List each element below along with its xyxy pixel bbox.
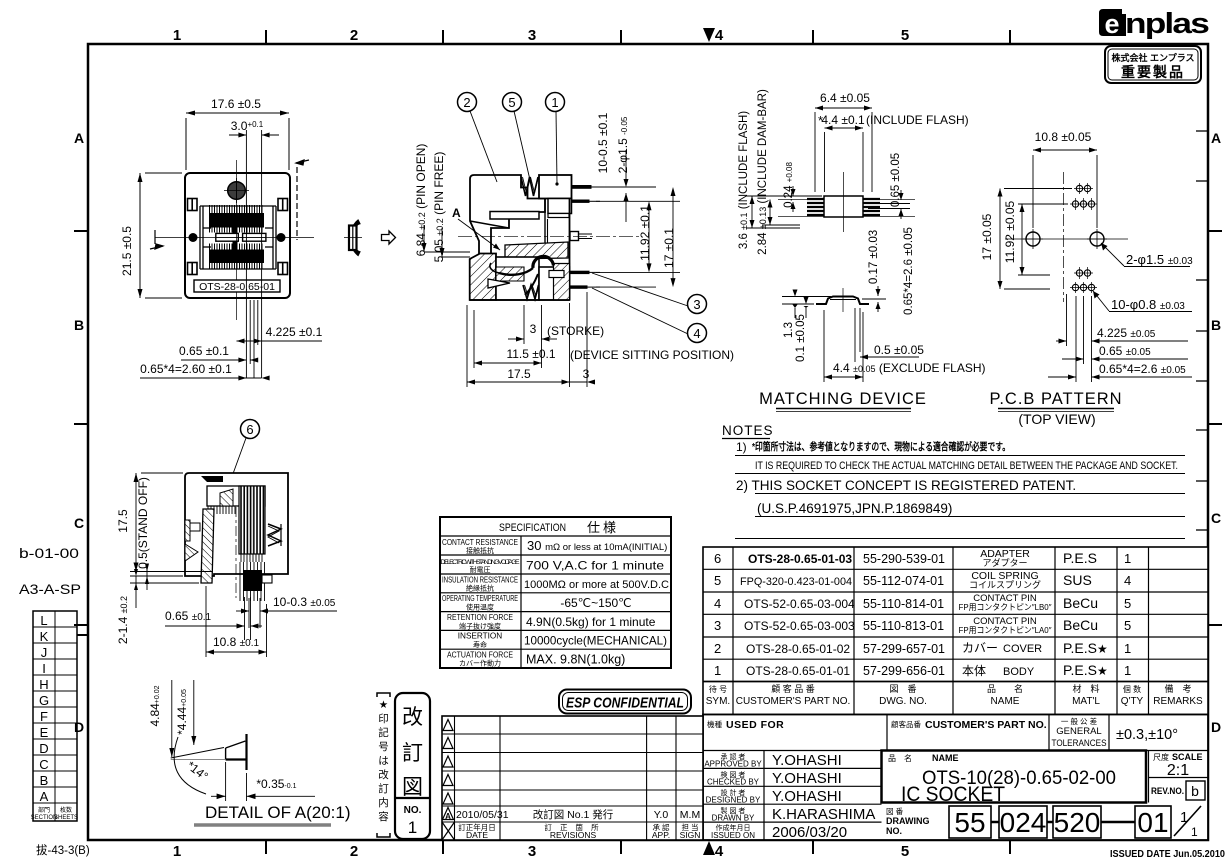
svg-text:700 V,A.C for 1 minute: 700 V,A.C for 1 minute bbox=[526, 559, 664, 573]
svg-text:1: 1 bbox=[1180, 809, 1188, 826]
svg-text:NAME: NAME bbox=[991, 696, 1020, 707]
matching device title bbox=[759, 390, 927, 412]
svg-text:1: 1 bbox=[173, 843, 181, 860]
svg-text:FPQ-320-0.423-01-004: FPQ-320-0.423-01-004 bbox=[740, 576, 852, 588]
svg-text:NAME: NAME bbox=[932, 753, 959, 763]
svg-text:備 考: 備 考 bbox=[1164, 683, 1191, 694]
svg-text:FP用コンタクトピン″LA0″: FP用コンタクトピン″LA0″ bbox=[959, 625, 1052, 635]
section arrow top right bbox=[296, 160, 309, 240]
svg-text:SYM.: SYM. bbox=[706, 696, 730, 707]
svg-text:1): 1) bbox=[736, 440, 747, 454]
svg-text:端子抜け強度: 端子抜け強度 bbox=[459, 622, 501, 631]
svg-text:2: 2 bbox=[463, 95, 470, 110]
svg-text:4: 4 bbox=[715, 843, 724, 860]
svg-text:5: 5 bbox=[901, 843, 909, 860]
svg-text:1000MΩ or more at 500V.D.C: 1000MΩ or more at 500V.D.C bbox=[524, 579, 669, 591]
svg-text:仕様: 仕様 bbox=[587, 520, 619, 535]
svg-text:b: b bbox=[1191, 783, 1199, 799]
svg-text:訂: 訂 bbox=[378, 782, 389, 795]
left standoff post hatched bbox=[201, 509, 214, 583]
svg-text:OTS-28-0.65-01: OTS-28-0.65-01 bbox=[199, 281, 275, 293]
centerline bbox=[235, 507, 237, 598]
svg-text:使用温度: 使用温度 bbox=[466, 603, 494, 612]
angle arc bbox=[174, 737, 206, 794]
svg-text:10.8 ±0.1: 10.8 ±0.1 bbox=[213, 635, 260, 649]
svg-text:APP.: APP. bbox=[652, 830, 670, 840]
svg-text:材 料: 材 料 bbox=[1072, 683, 1099, 694]
svg-text:17 ±0.1: 17 ±0.1 bbox=[662, 228, 676, 268]
svg-text:重要製品: 重要製品 bbox=[1121, 64, 1185, 80]
svg-text:3: 3 bbox=[530, 322, 537, 336]
svg-text:5.05 ±0.2 (PIN FREE): 5.05 ±0.2 (PIN FREE) bbox=[432, 152, 446, 263]
section arrow bottom left bbox=[150, 230, 163, 249]
svg-text:図: 図 bbox=[402, 776, 423, 799]
svg-text:枚数: 枚数 bbox=[60, 806, 72, 814]
view4 dims bbox=[980, 130, 1193, 382]
centerlines bbox=[155, 237, 314, 239]
svg-text:品 名: 品 名 bbox=[987, 683, 1023, 694]
svg-text:本体: 本体 bbox=[962, 664, 986, 678]
name bbox=[959, 548, 1052, 678]
svg-text:4: 4 bbox=[1124, 573, 1131, 588]
svg-text:REMARKS: REMARKS bbox=[1153, 696, 1203, 707]
balloon 2 bbox=[458, 93, 707, 343]
svg-text:DWG. NO.: DWG. NO. bbox=[879, 696, 927, 707]
svg-text:D: D bbox=[1211, 719, 1221, 735]
svg-text:1: 1 bbox=[173, 27, 181, 44]
svg-text:容: 容 bbox=[378, 810, 389, 823]
svg-text:55-112-074-01: 55-112-074-01 bbox=[863, 574, 944, 588]
centerline bbox=[458, 235, 640, 237]
svg-text:11.92 ±0.1: 11.92 ±0.1 bbox=[638, 205, 652, 261]
small left features bbox=[185, 520, 190, 541]
svg-text:SHEETS: SHEETS bbox=[54, 815, 78, 821]
svg-text:ISSUED ON: ISSUED ON bbox=[711, 831, 755, 840]
svg-text:5: 5 bbox=[1124, 596, 1131, 611]
contact pin curl bbox=[533, 256, 554, 268]
sym column bbox=[714, 551, 721, 678]
svg-text:DRAWN BY: DRAWN BY bbox=[712, 814, 755, 823]
svg-text:BeCu: BeCu bbox=[1063, 595, 1098, 611]
svg-text:A: A bbox=[452, 206, 461, 220]
svg-text:OTS-28-0.65-01-03: OTS-28-0.65-01-03 bbox=[748, 552, 852, 566]
svg-text:REV.NO.: REV.NO. bbox=[1151, 786, 1184, 796]
bottom spring zigzag bbox=[523, 285, 539, 299]
svg-text:1: 1 bbox=[1124, 551, 1131, 566]
svg-text:K.HARASHIMA: K.HARASHIMA bbox=[772, 806, 875, 823]
bottom right block bbox=[539, 267, 570, 300]
mount holes bbox=[1026, 232, 1040, 246]
svg-text:2006/03/20: 2006/03/20 bbox=[772, 824, 847, 841]
ESP CONFIDENTIAL stamp bbox=[559, 690, 691, 714]
svg-text:寿命: 寿命 bbox=[473, 640, 487, 649]
view5 dims bbox=[116, 473, 337, 657]
svg-text:10.8 ±0.05: 10.8 ±0.05 bbox=[1035, 130, 1092, 144]
svg-text:FP用コンタクトピン″LB0″: FP用コンタクトピン″LB0″ bbox=[959, 602, 1052, 612]
svg-text:A: A bbox=[40, 789, 49, 804]
svg-text:1: 1 bbox=[408, 818, 417, 837]
svg-text:改: 改 bbox=[378, 768, 389, 781]
sheet 1/1 bbox=[1174, 806, 1201, 836]
svg-text:株式会社 エンプラス: 株式会社 エンプラス bbox=[1111, 52, 1194, 63]
side spring zigzag bbox=[268, 524, 281, 546]
svg-text:3: 3 bbox=[583, 367, 590, 381]
svg-text:BODY: BODY bbox=[1003, 666, 1035, 678]
svg-text:DATE: DATE bbox=[466, 830, 488, 840]
svg-text:55-290-539-01: 55-290-539-01 bbox=[863, 552, 945, 566]
lower-left hatched body bbox=[470, 254, 496, 301]
svg-text:DETAIL OF A(20:1): DETAIL OF A(20:1) bbox=[205, 803, 351, 822]
chip side profile symbol bbox=[344, 221, 362, 256]
bottom edge bbox=[470, 299, 570, 301]
svg-text:CONTACT RESISTANCE: CONTACT RESISTANCE bbox=[442, 538, 518, 547]
comb under holder bbox=[208, 506, 235, 514]
svg-text:6.4 ±0.05: 6.4 ±0.05 bbox=[820, 91, 870, 105]
svg-text:3: 3 bbox=[714, 618, 721, 633]
top circle hatched bbox=[228, 182, 246, 200]
svg-text:は: は bbox=[378, 755, 389, 767]
svg-text:P.E.S★: P.E.S★ bbox=[1063, 662, 1108, 678]
svg-text:GENERAL: GENERAL bbox=[1056, 726, 1101, 737]
svg-text:TOLERANCES: TOLERANCES bbox=[1052, 738, 1107, 749]
lower extension lines bbox=[246, 130, 261, 378]
svg-text:図 番: 図 番 bbox=[889, 683, 916, 694]
svg-text:(STORKE): (STORKE) bbox=[547, 324, 604, 338]
svg-text:絶縁抵抗: 絶縁抵抗 bbox=[466, 584, 494, 593]
svg-text:3: 3 bbox=[693, 297, 700, 312]
svg-text:コイルスプリング: コイルスプリング bbox=[969, 579, 1041, 590]
svg-text:SPECIFICATION: SPECIFICATION bbox=[499, 522, 566, 534]
svg-text:DRAWING: DRAWING bbox=[886, 816, 930, 826]
svg-text:P.E.S: P.E.S bbox=[1063, 550, 1097, 566]
spring item5 top zigzag bbox=[521, 177, 538, 196]
svg-text:4.4 ±0.05 (EXCLUDE FLASH): 4.4 ±0.05 (EXCLUDE FLASH) bbox=[833, 361, 986, 375]
svg-text:B: B bbox=[1211, 317, 1221, 333]
balloon 4 bbox=[688, 324, 707, 343]
svg-text:Y.OHASHI: Y.OHASHI bbox=[772, 752, 842, 769]
svg-text:CHECKED BY: CHECKED BY bbox=[707, 778, 760, 787]
svg-text:訂: 訂 bbox=[402, 742, 423, 765]
pin tip shape bbox=[245, 734, 247, 770]
step under block bbox=[548, 199, 572, 214]
svg-text:e: e bbox=[1104, 9, 1119, 39]
top notch dark bbox=[201, 476, 223, 482]
svg-text:COVER: COVER bbox=[1003, 643, 1042, 655]
svg-text:(TOP VIEW): (TOP VIEW) bbox=[1018, 411, 1095, 427]
svg-text:OTS-52-0.65-03-003: OTS-52-0.65-03-003 bbox=[744, 619, 855, 633]
svg-text:H: H bbox=[39, 677, 48, 692]
svg-text:P.E.S★: P.E.S★ bbox=[1063, 640, 1108, 656]
svg-text:4: 4 bbox=[693, 326, 700, 341]
svg-text:1: 1 bbox=[1124, 663, 1131, 678]
svg-text:0.5(STAND OFF): 0.5(STAND OFF) bbox=[136, 477, 150, 569]
svg-text:OTS-28-0.65-01-01: OTS-28-0.65-01-01 bbox=[746, 664, 850, 678]
dense contact pin block bbox=[239, 486, 265, 554]
svg-text:MAX. 9.8N(1.0kg): MAX. 9.8N(1.0kg) bbox=[526, 653, 625, 667]
svg-text:17.5: 17.5 bbox=[507, 367, 531, 381]
svg-text:0.65 ±0.05: 0.65 ±0.05 bbox=[1099, 344, 1151, 358]
hatched wedge in holder bbox=[220, 489, 233, 506]
svg-text:NO.: NO. bbox=[886, 826, 902, 836]
svg-text:1: 1 bbox=[1191, 825, 1198, 839]
svg-text:CUSTOMER'S PART NO.: CUSTOMER'S PART NO. bbox=[925, 719, 1047, 731]
svg-text:カバー: カバー bbox=[962, 641, 998, 655]
svg-text:3: 3 bbox=[528, 27, 536, 44]
svg-text:01: 01 bbox=[1137, 807, 1168, 838]
svg-text:4: 4 bbox=[714, 596, 721, 611]
header row bbox=[442, 822, 455, 840]
svg-text:520: 520 bbox=[1054, 807, 1101, 838]
svg-text:4.225 ±0.05: 4.225 ±0.05 bbox=[1097, 326, 1156, 340]
svg-text:C: C bbox=[1211, 510, 1221, 526]
body outline bbox=[185, 473, 288, 576]
svg-text:改: 改 bbox=[402, 706, 423, 729]
balloon 3 bbox=[688, 295, 707, 314]
svg-text:ESP CONFIDENTIAL: ESP CONFIDENTIAL bbox=[566, 695, 684, 712]
centre nub bbox=[570, 232, 579, 241]
svg-text:0.65 ±0.1: 0.65 ±0.1 bbox=[179, 344, 229, 358]
svg-text:NO.: NO. bbox=[404, 805, 422, 816]
svg-text:OTS-52-0.65-03-004: OTS-52-0.65-03-004 bbox=[744, 597, 855, 611]
approval values bbox=[772, 752, 875, 841]
svg-text:1: 1 bbox=[551, 95, 558, 110]
svg-text:5: 5 bbox=[714, 573, 721, 588]
svg-text:NOTES: NOTES bbox=[722, 423, 774, 438]
qty bbox=[1124, 551, 1131, 678]
dwg no bbox=[863, 552, 945, 678]
svg-text:IT IS REQUIRED TO CHECK THE AC: IT IS REQUIRED TO CHECK THE ACTUAL MATCH… bbox=[755, 460, 1178, 472]
svg-text:号: 号 bbox=[378, 741, 389, 753]
svg-text:Y.OHASHI: Y.OHASHI bbox=[772, 770, 842, 787]
svg-text:6: 6 bbox=[714, 551, 721, 566]
svg-text:4.225 ±0.1: 4.225 ±0.1 bbox=[266, 325, 323, 339]
lead 1 bbox=[572, 185, 592, 189]
svg-text:10000cycle(MECHANICAL): 10000cycle(MECHANICAL) bbox=[524, 634, 667, 648]
svg-text:★: ★ bbox=[379, 699, 389, 711]
view3 dims bbox=[738, 89, 986, 382]
svg-text:2-1.4 ±0.2: 2-1.4 ±0.2 bbox=[116, 596, 130, 644]
svg-text:G: G bbox=[39, 693, 49, 708]
body outline bbox=[185, 173, 290, 298]
section sheets table bbox=[31, 611, 88, 821]
pcb title bbox=[989, 390, 1122, 427]
svg-text:024: 024 bbox=[1000, 807, 1047, 838]
approval labels bbox=[704, 752, 762, 840]
svg-text:図 番: 図 番 bbox=[886, 806, 904, 816]
svg-text:0.65*4=2.6 ±0.05: 0.65*4=2.6 ±0.05 bbox=[903, 227, 915, 315]
svg-text:内: 内 bbox=[378, 796, 389, 809]
svg-text:±0.3,±10°: ±0.3,±10° bbox=[1116, 727, 1178, 743]
svg-text:57-299-656-01: 57-299-656-01 bbox=[863, 664, 945, 678]
comb under pin block bbox=[241, 554, 262, 562]
svg-text:0.65 ±0.05: 0.65 ±0.05 bbox=[890, 153, 902, 207]
svg-text:(DEVICE SITTING POSITION): (DEVICE SITTING POSITION) bbox=[570, 348, 734, 362]
svg-text:B: B bbox=[74, 317, 84, 333]
svg-text:4.4 ±0.1: 4.4 ±0.1 bbox=[821, 113, 865, 127]
svg-text:2) THIS SOCKET CONCEPT IS REGI: 2) THIS SOCKET CONCEPT IS REGISTERED PAT… bbox=[736, 478, 1076, 493]
lead 4 bbox=[570, 285, 588, 288]
svg-text:2: 2 bbox=[350, 27, 358, 44]
svg-text:P.C.B PATTERN: P.C.B PATTERN bbox=[989, 390, 1122, 408]
mat'l bbox=[1063, 550, 1108, 678]
cover item2 outline bbox=[470, 175, 545, 255]
lead 3 bbox=[570, 271, 590, 274]
svg-text:D: D bbox=[39, 741, 48, 756]
svg-text:顧客品番: 顧客品番 bbox=[891, 719, 921, 729]
svg-text:4.9N(0.5kg) for 1 minute: 4.9N(0.5kg) for 1 minute bbox=[526, 615, 656, 629]
left margin texts bbox=[19, 545, 90, 857]
svg-text:個 数: 個 数 bbox=[1123, 684, 1141, 694]
svg-text:カバー作動力: カバー作動力 bbox=[459, 659, 501, 668]
svg-text:0.17 ±0.03: 0.17 ±0.03 bbox=[868, 230, 880, 284]
svg-text:拔-43-3(B): 拔-43-3(B) bbox=[36, 843, 90, 857]
svg-text:A3-A-SP: A3-A-SP bbox=[19, 581, 81, 597]
svg-text:顧 客 品 番: 顧 客 品 番 bbox=[771, 683, 815, 694]
flash wedge bbox=[171, 748, 224, 759]
svg-text:D: D bbox=[74, 719, 84, 735]
leads left bbox=[807, 199, 824, 215]
svg-text:0.65 ±0.1: 0.65 ±0.1 bbox=[165, 609, 212, 623]
svg-text:55-110-813-01: 55-110-813-01 bbox=[863, 619, 944, 633]
svg-text:M.M: M.M bbox=[680, 809, 700, 821]
svg-text:0.1 ±0.05: 0.1 ±0.05 bbox=[795, 314, 807, 362]
side ear dots bbox=[189, 233, 198, 242]
svg-text:OPERATING TEMPERATURE: OPERATING TEMPERATURE bbox=[442, 594, 518, 603]
svg-text:部門: 部門 bbox=[38, 806, 50, 814]
kaitei-zu vertical box bbox=[395, 693, 430, 839]
svg-text:接触抵抗: 接触抵抗 bbox=[466, 546, 494, 555]
svg-text:55-110-814-01: 55-110-814-01 bbox=[863, 597, 944, 611]
svg-text:INSERTION: INSERTION bbox=[458, 632, 503, 641]
center stem bbox=[544, 199, 546, 244]
svg-text:A: A bbox=[1211, 130, 1221, 146]
svg-text:ACTUATION FORCE: ACTUATION FORCE bbox=[447, 651, 513, 660]
svg-text:5: 5 bbox=[1124, 618, 1131, 633]
zone labels left bbox=[74, 130, 88, 735]
svg-text:b-01-00: b-01-00 bbox=[19, 545, 79, 561]
svg-text:10-0.5 ±0.1: 10-0.5 ±0.1 bbox=[596, 112, 610, 173]
svg-text:*印箇所寸法は、参考値となりますので、現物による適合確認が必: *印箇所寸法は、参考値となりますので、現物による適合確認が必要です。 bbox=[752, 440, 1010, 453]
svg-text:アダプター: アダプター bbox=[982, 557, 1027, 568]
svg-text:Y.0: Y.0 bbox=[654, 809, 669, 821]
center slot bbox=[216, 233, 239, 241]
svg-text:機種: 機種 bbox=[707, 719, 722, 729]
pads bbox=[1072, 185, 1094, 290]
svg-text:17.6 ±0.5: 17.6 ±0.5 bbox=[211, 97, 261, 111]
name block bbox=[882, 751, 1147, 803]
svg-text:C: C bbox=[39, 757, 48, 772]
svg-text:57-299-657-01: 57-299-657-01 bbox=[863, 642, 945, 656]
svg-text:SIGN: SIGN bbox=[680, 830, 701, 840]
svg-text:0.24 +0.08: 0.24 +0.08 bbox=[783, 162, 795, 208]
svg-text:4: 4 bbox=[715, 27, 724, 44]
svg-text:6.84 ±0.2 (PIN OPEN): 6.84 ±0.2 (PIN OPEN) bbox=[414, 144, 428, 257]
svg-text:6: 6 bbox=[246, 422, 253, 437]
svg-text:2010/05/31: 2010/05/31 bbox=[456, 809, 509, 821]
svg-text:55: 55 bbox=[954, 807, 985, 838]
svg-text:I: I bbox=[42, 661, 46, 676]
svg-text:E: E bbox=[40, 725, 49, 740]
revision A row bbox=[443, 808, 454, 820]
svg-text:F: F bbox=[40, 709, 48, 724]
svg-text:2.84 ±0.13 (INCLUDE DAM-BAR): 2.84 ±0.13 (INCLUDE DAM-BAR) bbox=[757, 89, 769, 255]
upper black contact band bbox=[209, 213, 264, 228]
svg-text:0.65*4=2.6 ±0.05: 0.65*4=2.6 ±0.05 bbox=[1099, 362, 1186, 376]
svg-text:Q'TY: Q'TY bbox=[1121, 696, 1144, 707]
zone labels bottom bbox=[173, 840, 1010, 860]
customer part no bbox=[740, 552, 855, 678]
empty row triangles bbox=[443, 720, 453, 805]
svg-text:L: L bbox=[40, 613, 47, 628]
svg-text:A: A bbox=[445, 812, 451, 821]
svg-text:B: B bbox=[40, 773, 49, 788]
lower black contact band bbox=[209, 250, 264, 264]
balloon 6 bbox=[241, 420, 260, 439]
svg-text:品 名: 品 名 bbox=[888, 753, 912, 763]
svg-text:改訂図 No.1 発行: 改訂図 No.1 発行 bbox=[533, 808, 614, 821]
package body bbox=[824, 196, 863, 217]
svg-text:耐電圧: 耐電圧 bbox=[470, 565, 491, 574]
svg-text:10-0.3 ±0.05: 10-0.3 ±0.05 bbox=[273, 595, 336, 609]
corner features bbox=[188, 199, 288, 275]
svg-text:USED FOR: USED FOR bbox=[726, 719, 784, 731]
svg-text:17 ±0.05: 17 ±0.05 bbox=[980, 213, 994, 260]
svg-text:2: 2 bbox=[714, 641, 721, 656]
label box bbox=[194, 280, 280, 292]
svg-text:一 般 公 差: 一 般 公 差 bbox=[1061, 716, 1098, 726]
upper pin comb full bbox=[210, 205, 263, 233]
svg-text:CUSTOMER'S PART NO.: CUSTOMER'S PART NO. bbox=[736, 696, 851, 707]
upper pin holder bbox=[207, 486, 265, 506]
enplas logo bbox=[1099, 8, 1208, 40]
svg-text:RETENTION FORCE: RETENTION FORCE bbox=[447, 613, 513, 622]
svg-text:Y.OHASHI: Y.OHASHI bbox=[772, 788, 842, 805]
svg-text:2: 2 bbox=[350, 843, 358, 860]
svg-text:IC SOCKET: IC SOCKET bbox=[901, 783, 1005, 806]
svg-text:(INCLUDE FLASH): (INCLUDE FLASH) bbox=[866, 113, 969, 127]
svg-text:OTS-28-0.65-01-02: OTS-28-0.65-01-02 bbox=[746, 642, 850, 656]
svg-text:K: K bbox=[40, 629, 49, 644]
svg-text:記: 記 bbox=[378, 726, 389, 739]
lower pin comb full bbox=[210, 244, 263, 269]
svg-text:11.5 ±0.1: 11.5 ±0.1 bbox=[506, 347, 555, 361]
svg-text:待 号: 待 号 bbox=[709, 684, 727, 694]
open arrow bbox=[382, 231, 396, 244]
balloon 1 bbox=[546, 93, 565, 112]
svg-text:-65℃~150℃: -65℃~150℃ bbox=[560, 596, 631, 610]
svg-text:11.92 ±0.05: 11.92 ±0.05 bbox=[1003, 200, 1017, 263]
svg-text:5: 5 bbox=[508, 95, 515, 110]
inner walls bbox=[200, 206, 276, 269]
right outer wall bbox=[569, 199, 571, 301]
svg-text:INSULATION RESISTANCE: INSULATION RESISTANCE bbox=[442, 576, 518, 585]
leads right bbox=[863, 199, 880, 215]
balloon 5 bbox=[503, 93, 522, 112]
svg-text:MAT'L: MAT'L bbox=[1072, 696, 1100, 707]
zone labels top bbox=[173, 27, 1010, 44]
hatched adapter band bbox=[505, 242, 568, 259]
ledge left bbox=[490, 212, 539, 220]
svg-text:SCALE: SCALE bbox=[1172, 752, 1203, 762]
svg-text:5: 5 bbox=[901, 27, 909, 44]
svg-text:APPROVED BY: APPROVED BY bbox=[704, 760, 762, 769]
important product box bbox=[1105, 46, 1201, 83]
svg-text:(U.S.P.4691975,JPN.P.1869849): (U.S.P.4691975,JPN.P.1869849) bbox=[757, 501, 952, 516]
svg-text:MATCHING DEVICE: MATCHING DEVICE bbox=[759, 390, 927, 408]
center dark bars bbox=[233, 217, 238, 233]
svg-text:DESIGNED BY: DESIGNED BY bbox=[706, 796, 761, 805]
svg-text:21.5 ±0.5: 21.5 ±0.5 bbox=[120, 226, 134, 276]
